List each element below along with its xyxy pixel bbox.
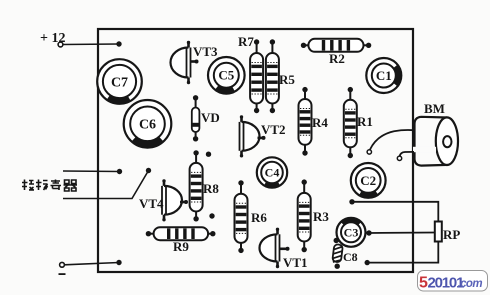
node speaker pad 2 <box>146 168 151 173</box>
terminal A circle <box>367 150 371 154</box>
node pad right of R8 top <box>206 152 211 157</box>
resistor R5 <box>266 42 279 111</box>
watermark 520101.com <box>418 271 488 292</box>
negative terminal <box>59 262 66 275</box>
resistor R9 <box>148 227 212 240</box>
resistor R6 <box>235 183 248 251</box>
transistor VT1 <box>260 228 290 269</box>
diode VD <box>192 98 200 139</box>
capacitor C3 <box>337 218 366 247</box>
svg-text:VT2: VT2 <box>261 122 286 137</box>
svg-text:VT3: VT3 <box>193 44 218 59</box>
wire RP bottom to board <box>367 241 438 263</box>
node C3 right pad <box>366 230 371 235</box>
node bottom wire pad <box>365 260 370 265</box>
svg-text:R1: R1 <box>357 114 373 129</box>
svg-text:C1: C1 <box>376 68 392 83</box>
svg-text:C5: C5 <box>218 68 234 83</box>
wire BM terminal B <box>400 152 414 156</box>
wire BM terminal A <box>370 130 414 150</box>
svg-text:VD: VD <box>201 110 220 125</box>
svg-text:BM: BM <box>424 101 445 116</box>
svg-text:C3: C3 <box>344 225 359 239</box>
node pad right of R8 bottom <box>209 213 214 218</box>
svg-text:R5: R5 <box>279 72 295 87</box>
resistor R1 <box>344 90 357 156</box>
terminal B circle <box>397 156 401 160</box>
svg-text:R6: R6 <box>251 210 267 225</box>
buzzer BM <box>413 117 458 166</box>
transistor VT3 <box>171 41 199 84</box>
svg-text:C7: C7 <box>111 75 128 90</box>
+12 supply terminal <box>40 31 65 47</box>
resistor R3 <box>298 182 311 250</box>
capacitor C2 <box>351 163 386 198</box>
node +12 pad <box>116 41 121 46</box>
wire +12 to board <box>63 43 119 46</box>
resistor R2 <box>304 39 369 52</box>
capacitor C8 <box>332 244 343 263</box>
circuit board outline <box>98 29 413 272</box>
wire speaker lead 1 <box>63 170 120 173</box>
svg-text:R9: R9 <box>173 239 189 254</box>
svg-text:VT4: VT4 <box>139 196 164 211</box>
svg-text:R7: R7 <box>238 34 254 49</box>
capacitor C6 <box>124 100 172 148</box>
transistor VT2 <box>240 115 266 157</box>
node minus pad <box>116 260 121 265</box>
resistor R7 <box>250 42 263 111</box>
svg-text:R2: R2 <box>329 51 345 66</box>
node speaker pad 1 <box>117 169 122 174</box>
svg-text:C8: C8 <box>343 250 358 264</box>
svg-text:R8: R8 <box>203 181 219 196</box>
node C8 bottom pad <box>335 264 340 269</box>
label 接扬声器 (to loudspeaker) <box>22 180 77 192</box>
svg-text:.com: .com <box>458 278 483 290</box>
svg-text:C6: C6 <box>139 118 156 133</box>
node C2 wire pad <box>349 199 354 204</box>
resistor R4 <box>299 90 312 153</box>
svg-text:R4: R4 <box>312 115 328 130</box>
wire minus to board <box>65 263 120 265</box>
wire speaker lead 2 <box>63 171 149 199</box>
capacitor C1 <box>366 58 401 93</box>
svg-text:C4: C4 <box>265 166 280 180</box>
node C8 top pad <box>334 238 339 243</box>
wire C2 node to RP top <box>352 202 438 222</box>
resistor R8 <box>190 153 203 219</box>
svg-text:RP: RP <box>443 227 460 242</box>
svg-text:C2: C2 <box>360 173 376 188</box>
capacitor C4 <box>257 157 287 187</box>
transistor VT4 <box>162 179 188 221</box>
wire C3 node to RP wiper <box>369 232 435 235</box>
capacitor C7 <box>97 59 142 104</box>
svg-text:VT1: VT1 <box>283 255 308 270</box>
potentiometer RP <box>435 222 442 242</box>
svg-text:R3: R3 <box>313 209 329 224</box>
capacitor C5 <box>208 57 245 94</box>
